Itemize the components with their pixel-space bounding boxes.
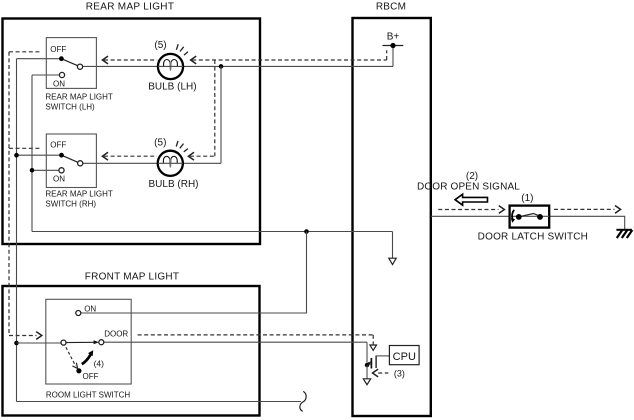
- wire room switch ON branch: [78, 232, 306, 314]
- wire RH OFF contact branch: [17, 154, 62, 156]
- svg-text:(2): (2): [466, 171, 478, 182]
- continuation hook (wire break symbol): [300, 391, 306, 411]
- switch DOOR LATCH SWITCH, value (1): [478, 193, 588, 243]
- open arrowhead down (circuit continues): [389, 258, 396, 264]
- svg-text:ON: ON: [53, 175, 65, 184]
- svg-text:B+: B+: [387, 32, 400, 43]
- dashed flow: left vertical bus: [9, 52, 41, 336]
- svg-text:OFF: OFF: [83, 372, 99, 381]
- svg-text:(4): (4): [94, 358, 105, 368]
- svg-text:DOOR LATCH SWITCH: DOOR LATCH SWITCH: [478, 231, 588, 242]
- switch ROOM LIGHT SWITCH: [46, 299, 131, 399]
- svg-text:REAR MAP LIGHT: REAR MAP LIGHT: [45, 93, 113, 102]
- ground (chassis, hatched): [616, 230, 632, 238]
- svg-text:ON: ON: [84, 304, 96, 313]
- wire room switch common branch: [17, 342, 64, 344]
- svg-text:SWITCH (RH): SWITCH (RH): [45, 199, 96, 208]
- dashed flow arrowhead at LH switch: [102, 56, 108, 64]
- dashed flow arrowhead at ground: [615, 206, 621, 214]
- wire LH OFF contact to vertical bus: [17, 58, 62, 60]
- dashed flow: RBCM to door latch switch: [438, 209, 498, 211]
- box RBCM: [353, 2, 431, 417]
- dashed flow arrow (3): [373, 369, 405, 379]
- svg-text:DOOR: DOOR: [104, 329, 128, 338]
- svg-text:(3): (3): [394, 369, 405, 379]
- wire vertical bus x32 (ON contacts): [31, 75, 33, 232]
- wire RH bulb row: [80, 162, 221, 164]
- svg-text:ON: ON: [53, 79, 65, 88]
- svg-text:(1): (1): [521, 193, 533, 204]
- wire drop inside RBCM from ON bus: [392, 232, 394, 259]
- junction at x16.5 / room switch common: [14, 341, 19, 346]
- dashed flow: RH row: [104, 155, 215, 157]
- svg-text:BULB (LH): BULB (LH): [148, 82, 196, 93]
- switch REAR MAP LIGHT SWITCH (RH): [45, 134, 113, 208]
- svg-text:FRONT MAP LIGHT: FRONT MAP LIGHT: [85, 271, 180, 282]
- dashed flow: B+ feed line LH row: [104, 50, 387, 60]
- wire RH drop x221: [220, 66, 222, 163]
- svg-text:(5): (5): [154, 40, 166, 51]
- dashed flow: latch switch to ground: [554, 208, 615, 210]
- svg-text:REAR MAP LIGHT: REAR MAP LIGHT: [86, 2, 174, 13]
- bulb BULB (RH) light rays: [176, 141, 188, 152]
- ground (RBCM internal, open triangle): [363, 379, 370, 385]
- dashed flow arrowhead into room light switch: [36, 332, 42, 340]
- junction LH row / RH drop: [219, 64, 224, 69]
- label (2) DOOR OPEN SIGNAL: [417, 171, 520, 193]
- svg-text:OFF: OFF: [50, 141, 66, 150]
- wire bottom run to continuation hook: [17, 401, 301, 403]
- svg-text:REAR MAP LIGHT: REAR MAP LIGHT: [45, 190, 113, 199]
- switch REAR MAP LIGHT SWITCH (LH): [45, 38, 113, 112]
- wire RH ON contact branch: [32, 169, 62, 171]
- dashed flow arrowhead into latch switch: [499, 206, 505, 214]
- transistor driver in RBCM: [365, 342, 390, 379]
- dashed flow: drop to RH row: [214, 60, 216, 156]
- svg-text:CPU: CPU: [393, 351, 416, 363]
- svg-text:SWITCH (LH): SWITCH (LH): [45, 103, 95, 112]
- wire B+ drop: [392, 46, 394, 67]
- bulb BULB (LH) light rays: [176, 44, 188, 55]
- node B+ terminal: [383, 32, 404, 49]
- wire RBCM to door latch switch: [431, 215, 510, 217]
- bulb BULB (RH): [158, 151, 183, 176]
- junction ON bus / room switch branch: [304, 229, 309, 234]
- box FRONT MAP LIGHT: [3, 271, 260, 415]
- svg-text:DOOR OPEN SIGNAL: DOOR OPEN SIGNAL: [417, 182, 520, 193]
- svg-text:BULB (RH): BULB (RH): [148, 179, 198, 190]
- dashed flow arrowhead at RH bulb: [188, 152, 194, 160]
- dashed flow: DOOR signal to CPU gate: [138, 335, 374, 345]
- wire LH bulb row (pivot to B+): [80, 65, 393, 67]
- wire LH ON contact to vertical bus x32: [32, 74, 62, 76]
- svg-text:ROOM LIGHT SWITCH: ROOM LIGHT SWITCH: [46, 391, 131, 400]
- svg-text:OFF: OFF: [50, 45, 66, 54]
- wire vertical bus x16.5 (OFF contacts / room switch common / bottom): [16, 59, 18, 402]
- box REAR MAP LIGHT: [3, 2, 261, 245]
- junction at x32 / RH ON: [30, 168, 35, 173]
- dashed flow arrowhead at LH bulb: [191, 56, 197, 64]
- junction at x16.5 / RH OFF: [14, 153, 19, 158]
- dashed flow arrowhead at RH switch: [102, 152, 108, 160]
- wire ON bus to RBCM: [32, 231, 393, 233]
- bulb BULB (LH): [158, 54, 183, 79]
- open arrowhead down at transistor gate: [370, 345, 377, 350]
- CPU box: [389, 346, 419, 365]
- svg-text:(5): (5): [154, 137, 166, 148]
- svg-text:RBCM: RBCM: [376, 2, 406, 13]
- block arrow (door open signal direction): [455, 194, 487, 205]
- wire through latch switch to ground: [549, 216, 624, 229]
- wire DOOR contact to RBCM transistor: [101, 341, 367, 343]
